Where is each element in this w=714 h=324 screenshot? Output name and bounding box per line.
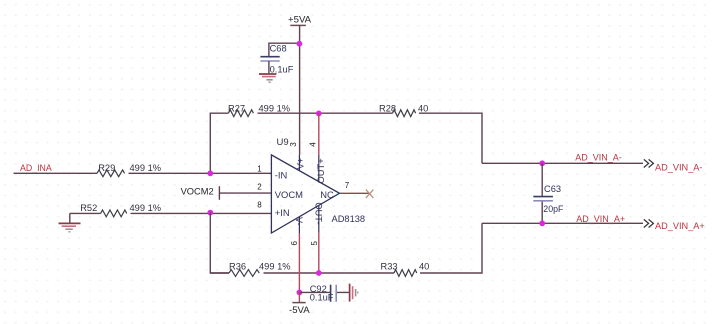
svg-text:8: 8 [257,200,262,209]
power symbol +5VA [288,14,312,25]
capacitor C68 [260,44,293,75]
net label VOCM2 port [181,186,220,200]
svg-text:AD_VIN_A-: AD_VIN_A- [575,153,622,163]
svg-text:AD_VIN_A+: AD_VIN_A+ [655,221,705,231]
node +IN junction [207,210,213,216]
wire C68 branch [269,43,300,56]
no-connect X [366,190,374,198]
svg-text:0.1uF: 0.1uF [270,65,294,75]
svg-text:V+: V+ [295,158,305,169]
svg-text:R29: R29 [98,163,115,173]
svg-text:40: 40 [419,262,429,272]
pin 6 stub [298,217,300,233]
wire C92 row [299,291,349,293]
wire AD_INA row [14,172,272,174]
node C63 top junction [539,160,545,166]
wire OUT- vertical [318,232,320,273]
wire bottom rail [210,223,482,273]
wire left vertical lower [210,213,229,273]
svg-text:U9: U9 [277,137,289,148]
resistor R27 [228,104,290,117]
node C68 junction [297,41,303,47]
svg-text:20pF: 20pF [543,204,564,214]
offpage connector AD_VIN_A+ [644,219,705,231]
wire AD_VIN_A- row [482,162,643,164]
wire +5VA stem [299,25,301,155]
resistor R52 [80,203,161,217]
wire NC pin7 [340,192,369,194]
svg-text:499 1%: 499 1% [130,203,162,213]
wire C63 stem [541,163,543,223]
svg-text:VOCM: VOCM [275,189,303,200]
wire V- vertical through rail [298,233,300,292]
wire C68 to ground [268,61,270,73]
offpage connector AD_VIN_A- [644,159,703,172]
svg-text:6: 6 [290,241,299,246]
svg-text:499 1%: 499 1% [259,104,291,114]
capacitor C92 [310,284,337,303]
resistor R33 [381,262,430,277]
wire VOCM row [219,192,271,194]
svg-text:7: 7 [345,181,350,190]
svg-text:AD_INA: AD_INA [20,163,52,173]
power symbol -5VA [289,303,310,317]
svg-text:AD_VIN_A-: AD_VIN_A- [655,162,703,172]
node C63 bottom junction [539,220,545,226]
svg-text:5: 5 [310,241,319,246]
svg-text:499 1%: 499 1% [130,163,162,173]
pin 3 stub [298,155,300,171]
resistor R36 [229,262,291,277]
svg-text:+5VA: +5VA [288,14,312,25]
op-amp U9 AD8138 [271,137,365,233]
node OUT+ top junction [316,111,322,117]
resistor R28 [379,104,428,117]
svg-text:+IN: +IN [275,207,290,218]
svg-text:NC: NC [320,189,334,200]
pin 5 stub [318,205,320,232]
svg-text:C68: C68 [270,44,287,54]
ground (left of R52) [59,213,81,231]
svg-text:-5VA: -5VA [289,305,310,316]
svg-text:AD8138: AD8138 [332,214,366,224]
wire R52 row [70,212,271,214]
node OUT- junction [316,270,322,276]
svg-text:R52: R52 [80,203,97,213]
capacitor C63 [533,184,564,214]
pin 4 stub [318,155,320,182]
svg-text:C63: C63 [544,184,561,194]
svg-text:4: 4 [309,142,318,147]
node -IN junction [207,170,213,176]
ground (below C68) [259,74,276,82]
svg-text:-IN: -IN [275,170,288,181]
resistor R29 [97,163,161,177]
ground (right of C92, rotated) [350,284,358,302]
wire -5VA stem [298,292,300,302]
svg-text:499 1%: 499 1% [259,262,291,272]
wire OUT+ vertical [318,113,320,155]
svg-text:2: 2 [257,183,262,192]
svg-text:40: 40 [418,104,428,114]
wire AD_VIN_A+ row [482,222,643,224]
svg-text:3: 3 [289,142,298,147]
svg-text:0.1uF: 0.1uF [310,292,334,302]
svg-text:AD_VIN_A+: AD_VIN_A+ [576,214,625,224]
wire top rail [210,113,482,173]
svg-text:OUT+: OUT+ [315,158,326,184]
node C92 junction [297,290,303,296]
svg-text:1: 1 [257,164,262,173]
svg-text:VOCM2: VOCM2 [181,187,214,197]
